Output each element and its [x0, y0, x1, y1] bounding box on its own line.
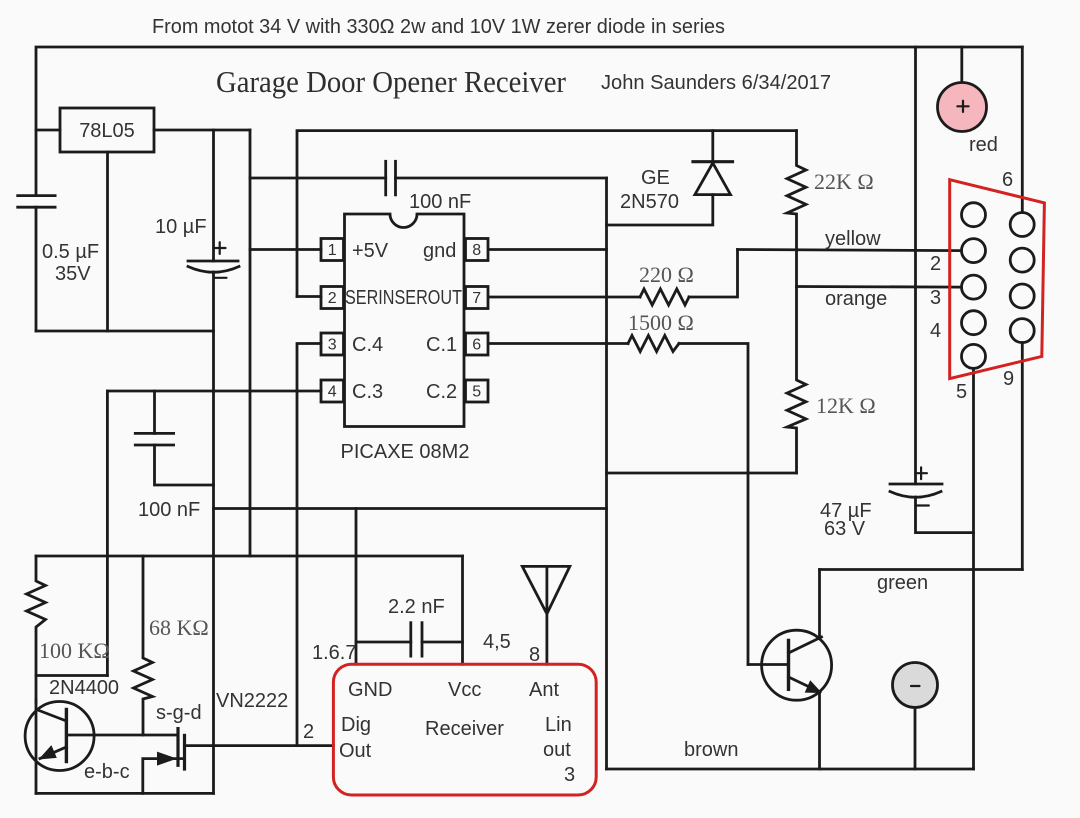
wire: 100K bottom box wire y675.5: [36, 674, 107, 677]
resistor R 220 zigzag: [640, 289, 689, 305]
battery minus terminal circle: [893, 663, 938, 708]
svg-text:C.3: C.3: [352, 381, 383, 403]
connector J1 pin 7 circle: [1010, 248, 1034, 272]
wire: DB9 pin9 lead down to green wire: [1021, 343, 1024, 570]
svg-text:1500 Ω: 1500 Ω: [628, 310, 694, 335]
wire: base wire to mosfet gate: [66, 734, 178, 737]
wire: pin4 C.3 wire to left: [107, 390, 321, 393]
antenna symbol: [522, 566, 570, 614]
svg-text:8: 8: [529, 644, 540, 666]
svg-text:5: 5: [956, 381, 967, 403]
connector J1 pin 3 circle: [962, 275, 986, 299]
transistor Q1 collector diagonal: [37, 710, 67, 722]
resistor R 1500 zigzag: [628, 336, 679, 352]
connector J1 pin 1 circle: [962, 203, 986, 227]
polarity minus sign on gray terminal: [911, 685, 920, 687]
polarity minus sign of 47uF: [917, 504, 929, 506]
wire: Q3 collector riser: [818, 570, 821, 637]
wire: pin1 +5V feed: [250, 248, 321, 251]
svg-text:e-b-c: e-b-c: [84, 761, 130, 783]
resistor R 100K with leads: [27, 556, 46, 703]
wire: 78L05 output to x250: [154, 129, 250, 132]
wire: emitter rail x36 down to bottom: [35, 700, 38, 793]
wire: brown bottom bus: [607, 768, 974, 771]
wire: pin7 serout to 220R: [489, 296, 641, 299]
wire: x915.5 rail from top to 47uF: [914, 47, 917, 484]
svg-text:12K Ω: 12K Ω: [816, 393, 876, 418]
pin 7 box: [466, 287, 489, 309]
connector J1 pin 9 circle: [1010, 319, 1034, 343]
polarity plus sign on red terminal: [957, 105, 968, 107]
svg-text:Receiver: Receiver: [425, 718, 504, 740]
node: red circle lead from top rail: [960, 47, 963, 83]
capacitor C 2.2nF plates: [409, 623, 412, 656]
svg-text:2: 2: [930, 253, 941, 275]
svg-text:Dig: Dig: [341, 714, 371, 736]
transistor Q1 base bar: [65, 710, 68, 762]
polarity plus sign of 10uF: [214, 247, 226, 249]
mosfet Q2 source wire: [143, 759, 182, 794]
transistor Q3 base bar: [787, 640, 790, 689]
wire: bus A y556: [36, 555, 463, 558]
resistor R 12K with leads: [787, 287, 806, 474]
svg-text:GE: GE: [641, 167, 670, 189]
pin 1 box: [321, 239, 344, 261]
svg-text:C.2: C.2: [426, 381, 457, 403]
wire: DB9 pin6 lead from top rail: [1021, 47, 1024, 212]
svg-text:brown: brown: [684, 739, 738, 761]
diode D1 cathode bar: [693, 160, 733, 163]
pin 5 box: [466, 380, 489, 402]
svg-text:68 KΩ: 68 KΩ: [149, 615, 209, 640]
svg-text:+5V: +5V: [352, 240, 389, 262]
wire: base feed into Q3: [748, 663, 789, 666]
wire: 100nF top cap feed y178: [250, 177, 386, 180]
wire: bottom-left 100nF top lead: [153, 391, 156, 433]
svg-text:orange: orange: [825, 288, 887, 310]
resistor R 22K with leads: [787, 131, 806, 287]
wire: 0.5uF bottom lead down to ground rail: [35, 207, 38, 331]
wire: minus terminal lead: [914, 708, 917, 770]
polarity plus sign of 47uF: [915, 472, 927, 474]
wire: 78L05 input from left rail: [36, 129, 60, 132]
svg-text:3: 3: [930, 287, 941, 309]
wire: +5V vertical at x250: [249, 130, 252, 556]
connector J1 pin 4 circle: [962, 311, 986, 335]
wire: 78L05 ground lead: [106, 152, 109, 331]
IC U1 PICAXE 08M2 body: [345, 214, 465, 427]
wire: yellow wire to DB9 pin2: [738, 250, 962, 251]
svg-text:From motot 34 V with 330Ω 2w a: From motot 34 V with 330Ω 2w and 10V 1W …: [152, 16, 725, 38]
connector J1 pin 8 circle: [1010, 284, 1034, 308]
svg-text:1.6.7: 1.6.7: [312, 642, 356, 664]
svg-text:out: out: [543, 739, 571, 761]
pin 3 box: [321, 333, 344, 355]
svg-text:green: green: [877, 572, 928, 594]
diode D1 triangle: [695, 163, 731, 195]
capacitor C 0.5uF plates: [18, 194, 55, 197]
pin 2 box: [321, 287, 344, 309]
svg-text:C.4: C.4: [352, 334, 383, 356]
svg-text:SERINSEROUT: SERINSEROUT: [345, 287, 462, 309]
svg-text:4,5: 4,5: [483, 631, 511, 653]
capacitor C 100nF top plates: [384, 161, 387, 195]
transistor Q3 collector diagonal: [789, 637, 822, 653]
receiver module box: [333, 664, 596, 795]
svg-text:100 nF: 100 nF: [409, 191, 471, 213]
svg-text:s-g-d: s-g-d: [156, 702, 202, 724]
regulator U 78L05 box: [60, 108, 154, 152]
capacitor C 100nF (lower left) plates: [135, 432, 173, 435]
svg-text:VN2222: VN2222: [216, 690, 288, 712]
svg-text:C.1: C.1: [426, 334, 457, 356]
svg-text:2N4400: 2N4400: [49, 677, 119, 699]
wire: bus B y508.5 to receiver gnd: [214, 507, 607, 510]
svg-text:gnd: gnd: [423, 240, 456, 262]
resistor R 68K with leads: [134, 556, 153, 735]
svg-text:22K Ω: 22K Ω: [814, 169, 874, 194]
wire: pin3 C.4 down to receiver dig out: [297, 344, 321, 746]
svg-text:78L05: 78L05: [79, 120, 135, 142]
wire: pin8 gnd to right bus: [489, 248, 607, 251]
svg-text:2N570: 2N570: [620, 191, 679, 213]
wire: 2.2nF right lead to Vcc: [422, 641, 463, 644]
svg-text:red: red: [969, 134, 998, 156]
transistor Q1 emitter diagonal: [40, 747, 66, 759]
wire: pin4 branch vertical x107.4: [106, 391, 109, 676]
svg-text:100 KΩ: 100 KΩ: [39, 638, 110, 663]
wire: 1500R down to transistor base: [679, 344, 748, 665]
wire: bottom-left ground bus y793.4: [36, 792, 214, 795]
wire: 12K bottom to right bus y473: [607, 472, 797, 475]
svg-text:0.5 µF: 0.5 µF: [42, 241, 99, 263]
wire: mosfet drain to receiver Dig Out: [185, 744, 334, 747]
transistor Q3 emitter arrow: [805, 680, 822, 693]
wire: receiver GND lead x356: [355, 509, 358, 665]
wire: 100nF to right bus: [396, 177, 607, 180]
transistor Q1 2N4400 circle: [25, 702, 94, 771]
svg-text:100 nF: 100 nF: [138, 499, 200, 521]
svg-text:yellow: yellow: [825, 228, 881, 250]
connector J1 pin 6 circle: [1010, 213, 1034, 237]
svg-text:9: 9: [1003, 368, 1014, 390]
wire: Q3 emitter down to brown bus: [818, 692, 821, 769]
mosfet Q2 VN2222 gate bar: [176, 729, 179, 766]
svg-text:1: 1: [328, 242, 337, 259]
diode D1 bottom lead to right bus: [607, 195, 713, 225]
diode D1 GE 2N570 top lead: [711, 131, 714, 162]
wire: serin top rail x297 to 22K column: [297, 131, 797, 297]
wire: 220R to yellow riser: [689, 250, 738, 298]
connector J1 pin 2 circle: [962, 239, 986, 263]
svg-text:GND: GND: [348, 679, 392, 701]
wire: 47uF bottom lead to pin5 rail: [916, 497, 974, 533]
svg-text:Vcc: Vcc: [448, 679, 481, 701]
svg-text:10 µF: 10 µF: [155, 216, 207, 238]
mosfet Q2 channel bar: [183, 735, 186, 769]
svg-text:2: 2: [328, 290, 337, 307]
svg-text:2: 2: [303, 721, 314, 743]
polarity minus sign of 10uF: [214, 277, 226, 279]
svg-text:6: 6: [472, 337, 481, 354]
battery plus terminal red circle: [938, 83, 987, 132]
wire: green wire: [820, 568, 1023, 571]
transistor Q3 circle: [762, 630, 832, 700]
svg-text:Out: Out: [339, 740, 372, 762]
transistor Q3 emitter diagonal: [789, 677, 821, 692]
svg-text:2.2 nF: 2.2 nF: [388, 596, 445, 618]
svg-text:35V: 35V: [55, 263, 91, 285]
svg-text:6: 6: [1002, 169, 1013, 191]
svg-text:Garage Door Opener Receiver: Garage Door Opener Receiver: [216, 64, 567, 99]
transistor Q1 emitter arrow: [39, 745, 57, 759]
wire: DB9 pin5 rail down to brown bus: [972, 369, 975, 770]
svg-text:5: 5: [472, 384, 481, 401]
svg-text:Ant: Ant: [529, 679, 559, 701]
capacitor C 47uF plates: [890, 483, 942, 486]
pin 4 box: [321, 380, 344, 402]
wire: antenna mast to Ant pin: [546, 566, 549, 664]
svg-text:Lin: Lin: [545, 714, 572, 736]
svg-text:PICAXE 08M2: PICAXE 08M2: [341, 441, 470, 463]
wire: 100nF bottom lead: [155, 445, 214, 485]
capacitor C 10uF electrolytic top lead: [212, 130, 215, 261]
wire: receiver Vcc lead x462.5 from bus A: [461, 556, 464, 664]
wire: 10uF bottom lead long vertical x213.5: [212, 272, 215, 793]
wire: left ground rail y331: [36, 330, 214, 333]
svg-text:4: 4: [930, 320, 941, 342]
svg-text:7: 7: [472, 290, 481, 307]
wire: pin6 C.1 to 1500R: [489, 342, 629, 345]
connector J1 pin 5 circle: [962, 344, 986, 368]
wire: right bus vertical x606.5: [605, 178, 608, 769]
svg-text:8: 8: [472, 242, 481, 259]
wire: pin2 serin wire: [297, 295, 321, 298]
wire: top supply rail from motor: [36, 47, 1022, 195]
mosfet Q2 source arrow: [157, 752, 177, 766]
svg-text:63 V: 63 V: [824, 518, 866, 540]
svg-text:John Saunders 6/34/2017: John Saunders 6/34/2017: [601, 72, 831, 94]
connector J1 DB9 outline: [950, 180, 1045, 379]
svg-text:4: 4: [328, 384, 337, 401]
capacitor C 10uF plates: [188, 260, 238, 263]
wire: 2.2nF left lead: [356, 641, 411, 644]
svg-text:220 Ω: 220 Ω: [639, 262, 694, 287]
svg-text:3: 3: [328, 337, 337, 354]
svg-text:3: 3: [564, 764, 575, 786]
wire: orange wire 22K bottom to DB9 pin3: [797, 285, 962, 288]
pin 6 box: [466, 333, 489, 355]
pin 8 box: [466, 239, 489, 261]
